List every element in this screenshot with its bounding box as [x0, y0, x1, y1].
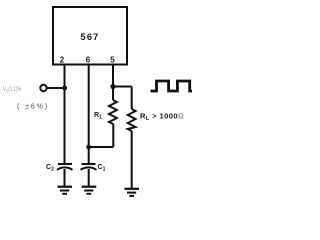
- wire R1 bottom vertical: [112, 124, 114, 147]
- svg-text:VO(1.1)%: VO(1.1)%: [3, 86, 22, 93]
- svg-text:( ±6%): ( ±6%): [17, 104, 49, 111]
- square wave output symbol: [151, 81, 193, 91]
- ground C2: [58, 186, 73, 188]
- wire R1 bottom horizontal: [89, 146, 114, 148]
- wire RL top vertical: [131, 87, 133, 110]
- capacitor C1: [82, 163, 96, 165]
- node junction pin5: [110, 84, 115, 89]
- svg-text:6: 6: [86, 56, 91, 65]
- wire C2 to ground: [64, 169, 66, 186]
- capacitor C2: [58, 163, 72, 165]
- ground RL: [125, 188, 140, 190]
- wire pin2 vertical: [64, 65, 66, 165]
- wire pin5 to RL horizontal: [113, 86, 132, 88]
- wire pin5 vertical: [112, 65, 114, 101]
- input terminal circle: [40, 85, 46, 91]
- wire RL bottom vertical: [131, 131, 133, 188]
- resistor RL: [128, 109, 136, 131]
- svg-text:2: 2: [60, 56, 65, 65]
- svg-text:5: 5: [110, 56, 115, 65]
- resistor R1: [109, 100, 117, 124]
- wire input horizontal: [47, 87, 65, 89]
- IC U1 567 tone decoder box: [53, 7, 127, 65]
- wire C1 to ground: [88, 169, 90, 186]
- node junction input/pin2: [62, 86, 67, 91]
- ground C1: [82, 186, 97, 188]
- node junction pin6/R1: [86, 145, 91, 150]
- svg-text:567: 567: [81, 32, 100, 42]
- wire pin6 vertical: [88, 65, 90, 164]
